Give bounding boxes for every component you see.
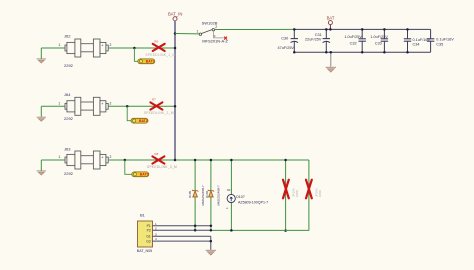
svg-text:D105: D105 xyxy=(188,190,192,198)
svg-text:BAT_IN: BAT_IN xyxy=(168,12,182,17)
svg-text:R6: R6 xyxy=(154,40,158,44)
svg-text:J62: J62 xyxy=(64,34,71,39)
svg-text:SW102B: SW102B xyxy=(202,20,218,25)
svg-text:J63: J63 xyxy=(64,146,71,151)
svg-text:2292: 2292 xyxy=(64,171,74,176)
svg-text:AZ5809-100QP1-7: AZ5809-100QP1-7 xyxy=(238,200,268,204)
svg-text:P1: P1 xyxy=(147,224,151,228)
svg-text:BAT_N05: BAT_N05 xyxy=(137,249,152,253)
svg-text:SPEEDLINK_1_M: SPEEDLINK_1_M xyxy=(145,53,175,57)
svg-text:100K: 100K xyxy=(295,190,299,197)
svg-text:2: 2 xyxy=(110,155,112,159)
svg-text:0.1uF/16V: 0.1uF/16V xyxy=(436,37,454,41)
svg-text:1.0uF/25V: 1.0uF/25V xyxy=(344,35,362,39)
svg-text:G1: G1 xyxy=(146,235,151,239)
svg-text:C33: C33 xyxy=(375,41,382,45)
svg-text:D106: D106 xyxy=(205,190,209,198)
svg-text:R8: R8 xyxy=(155,152,159,156)
svg-text:P2: P2 xyxy=(147,229,151,233)
svg-text:BAT2: BAT2 xyxy=(139,119,148,123)
svg-text:1.0uF/25V: 1.0uF/25V xyxy=(370,35,388,39)
svg-text:C34: C34 xyxy=(413,43,420,47)
svg-text:BAT: BAT xyxy=(327,16,335,21)
svg-text:1: 1 xyxy=(58,101,60,105)
svg-text:D107: D107 xyxy=(236,195,245,199)
svg-text:BAT3: BAT3 xyxy=(140,173,149,177)
svg-text:1: 1 xyxy=(197,29,199,33)
svg-text:2: 2 xyxy=(215,25,217,29)
svg-text:47uF/25V: 47uF/25V xyxy=(278,46,295,50)
svg-text:2292: 2292 xyxy=(64,63,74,68)
svg-text:2: 2 xyxy=(110,43,112,47)
svg-text:R7: R7 xyxy=(152,98,156,102)
svg-text:SPEEDLINK_3_M: SPEEDLINK_3_M xyxy=(147,165,177,169)
svg-text:MMSZ5248B-7: MMSZ5248B-7 xyxy=(216,185,220,206)
svg-text:1: 1 xyxy=(58,43,60,47)
svg-text:C35: C35 xyxy=(436,43,443,47)
svg-text:G2: G2 xyxy=(146,239,151,243)
svg-text:J64: J64 xyxy=(64,92,71,97)
svg-text:C30: C30 xyxy=(281,37,288,41)
svg-text:100K: 100K xyxy=(318,190,322,197)
svg-text:SPEEDLINK_2_M: SPEEDLINK_2_M xyxy=(144,111,174,115)
svg-text:2292: 2292 xyxy=(64,116,74,121)
svg-text:C32: C32 xyxy=(350,41,357,45)
svg-text:B1: B1 xyxy=(140,213,146,218)
svg-text:BAT1: BAT1 xyxy=(146,60,155,64)
svg-text:+: + xyxy=(226,206,228,210)
svg-text:C31: C31 xyxy=(315,33,322,37)
svg-text:1: 1 xyxy=(58,155,60,159)
svg-text:22uF/25V: 22uF/25V xyxy=(305,37,322,41)
svg-text:2: 2 xyxy=(110,101,112,105)
